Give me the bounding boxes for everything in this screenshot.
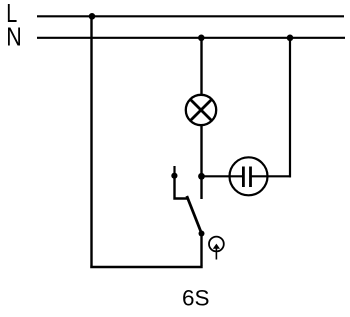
timer U1 (capacitor in circle) (230, 157, 268, 195)
switch S1 lever (187, 196, 202, 234)
switch S1 left contact dot (171, 173, 177, 179)
wire timer to right branch (251, 175, 292, 177)
wire L supply line (37, 15, 344, 17)
node junction (lamp / timer / switch) (198, 173, 205, 180)
svg-text:6S: 6S (182, 286, 210, 311)
wire N to lamp (200, 38, 202, 95)
wire N supply line (37, 37, 345, 39)
junction on L line (89, 13, 96, 20)
wire pivot to bottom (200, 234, 202, 267)
wire lamp to node (200, 125, 202, 176)
junction on N line (timer branch) (287, 35, 294, 42)
pushbutton actuator symbol (arrow in circle) (209, 237, 224, 260)
wire left vertical (L to bottom) (90, 16, 92, 266)
wire node to timer capacitor (202, 175, 245, 177)
svg-text:N: N (6, 24, 22, 52)
switch S1 left terminal bend (175, 176, 188, 199)
switch S1 pivot dot (199, 231, 205, 237)
switch S1 left terminal stub (173, 166, 175, 176)
switch S1 right terminal (200, 176, 202, 199)
wire right vertical (N to timer) (289, 38, 291, 178)
junction on N line (lamp branch) (198, 35, 205, 42)
wire bottom horizontal (90, 266, 203, 269)
lamp E1 (circle with X) (186, 95, 216, 125)
